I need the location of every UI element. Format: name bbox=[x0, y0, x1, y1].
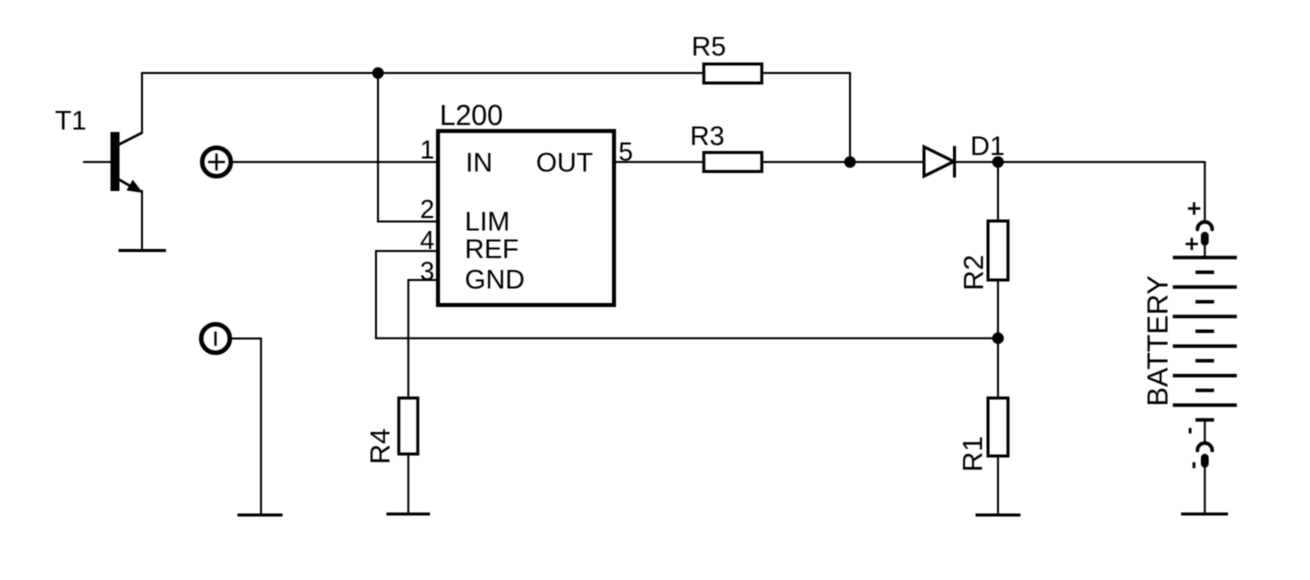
svg-text:D1: D1 bbox=[970, 131, 1005, 161]
svg-text:R1: R1 bbox=[957, 436, 988, 472]
svg-text:REF: REF bbox=[465, 234, 519, 264]
svg-text:3: 3 bbox=[420, 256, 434, 286]
svg-text:T1: T1 bbox=[55, 105, 87, 135]
svg-text:R4: R4 bbox=[365, 428, 396, 464]
svg-text:R2: R2 bbox=[958, 255, 989, 291]
svg-text:R5: R5 bbox=[692, 32, 727, 62]
svg-text:GND: GND bbox=[465, 265, 525, 295]
svg-text:BATTERY: BATTERY bbox=[1143, 275, 1175, 406]
svg-text:1: 1 bbox=[420, 134, 434, 164]
svg-text:L200: L200 bbox=[440, 100, 503, 132]
svg-text:OUT: OUT bbox=[536, 147, 593, 177]
svg-text:R3: R3 bbox=[690, 121, 725, 151]
svg-text:2: 2 bbox=[420, 194, 434, 224]
svg-text:4: 4 bbox=[420, 225, 434, 255]
svg-text:LIM: LIM bbox=[465, 207, 510, 237]
svg-text:5: 5 bbox=[619, 136, 633, 166]
svg-text:IN: IN bbox=[466, 147, 493, 177]
